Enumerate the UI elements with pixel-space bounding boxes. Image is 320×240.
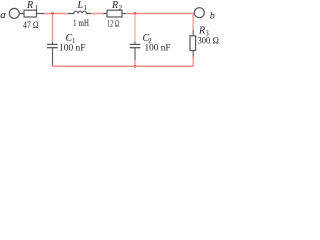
- terminal b: [194, 8, 204, 18]
- wire L1 to R2: [91, 13, 103, 15]
- wire C2 to bottom rail: [134, 60, 136, 66]
- capacitor C1: [47, 42, 58, 65]
- svg-text:1 mH: 1 mH: [73, 19, 89, 29]
- svg-text:1: 1: [35, 4, 39, 12]
- bottom rail wire: [53, 65, 194, 67]
- value 1 mH: [73, 19, 89, 29]
- capacitor C2: [130, 42, 141, 60]
- svg-text:a: a: [0, 9, 6, 21]
- node b: [210, 10, 215, 21]
- svg-text:300 Ω: 300 Ω: [198, 37, 220, 47]
- node a: [0, 9, 6, 21]
- value 300 ohm: [198, 37, 220, 47]
- value 100 nF: [59, 44, 86, 54]
- junction node 1: [51, 12, 54, 15]
- label R1: [26, 0, 39, 12]
- resistor R3: [190, 30, 196, 57]
- label R2: [111, 0, 123, 12]
- wire R3 to bottom rail: [192, 57, 194, 67]
- svg-text:100 nF: 100 nF: [145, 44, 171, 54]
- value 47 ohm: [23, 21, 39, 31]
- label C2: [143, 33, 153, 45]
- label C1: [66, 33, 77, 45]
- inductor L1: [68, 11, 91, 13]
- svg-text:2: 2: [119, 4, 123, 12]
- terminal a: [9, 8, 19, 18]
- wire R1 to L1: [44, 13, 68, 15]
- svg-text:R: R: [111, 0, 118, 11]
- svg-text:1: 1: [84, 4, 88, 12]
- wire node1 down to C1: [52, 14, 54, 43]
- resistor R2: [104, 10, 127, 17]
- svg-text:b: b: [210, 10, 215, 21]
- label L1: [77, 0, 88, 12]
- wire C1 to bottom rail: [52, 65, 54, 67]
- resistor R1: [24, 10, 44, 17]
- junction node 2: [134, 12, 137, 15]
- svg-text:R: R: [198, 26, 205, 37]
- wire lead a to R1: [19, 13, 24, 15]
- wire R2 to corner b: [126, 13, 193, 15]
- svg-text:12 Ω: 12 Ω: [107, 20, 120, 30]
- svg-text:100 nF: 100 nF: [59, 44, 86, 54]
- svg-text:R: R: [26, 0, 33, 11]
- value 12 ohm: [107, 20, 120, 30]
- wire corner b down to R3: [192, 14, 194, 30]
- label R3: [198, 26, 209, 38]
- wire node2 down to C2: [134, 14, 136, 43]
- svg-text:L: L: [77, 0, 84, 11]
- junction node 3 bottom: [134, 65, 137, 68]
- svg-text:47 Ω: 47 Ω: [23, 21, 39, 31]
- value 100 nF C2: [145, 44, 171, 54]
